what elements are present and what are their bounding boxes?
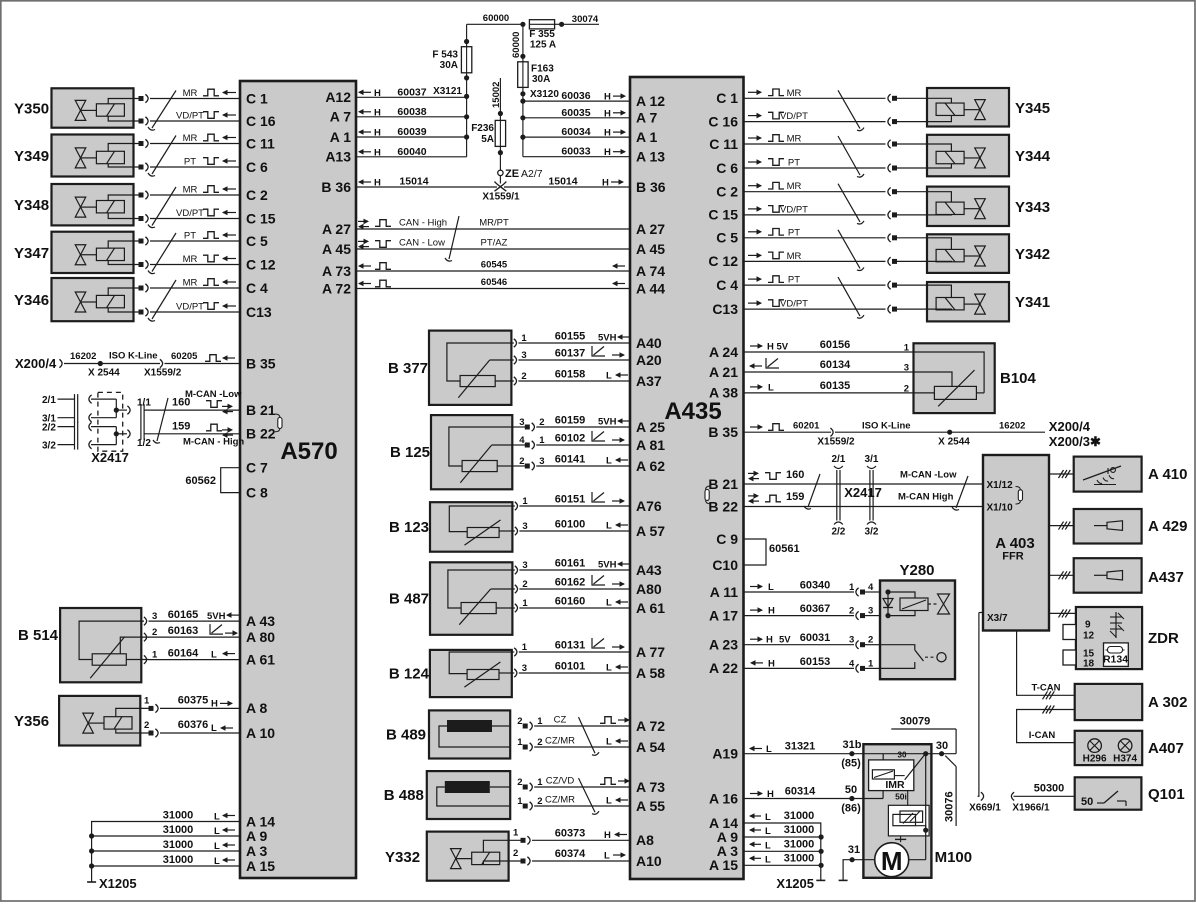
ZDR label xyxy=(1148,630,1179,647)
svg-text:Y332: Y332 xyxy=(385,849,420,866)
icon L CZ/MR xyxy=(606,737,628,748)
svg-text:3: 3 xyxy=(522,521,527,532)
svg-text:60135: 60135 xyxy=(820,380,851,392)
A435 pin A 8 xyxy=(636,832,654,848)
svg-text:31000: 31000 xyxy=(163,810,194,822)
A570 pin C 1 xyxy=(246,90,268,106)
svg-text:A12: A12 xyxy=(325,89,351,105)
svg-text:B 489: B 489 xyxy=(386,726,426,743)
svg-text:30A: 30A xyxy=(440,60,458,71)
B 487 pin 3 xyxy=(512,560,630,574)
wire label 15002 xyxy=(491,82,502,108)
sensor B514 box xyxy=(60,608,141,682)
A429 label xyxy=(1148,518,1187,535)
A570 pin C 6 xyxy=(246,159,268,175)
svg-text:A 17: A 17 xyxy=(709,607,738,623)
svg-text:A 12: A 12 xyxy=(636,93,665,109)
svg-text:30076: 30076 xyxy=(944,791,956,822)
A435 pin A 54 xyxy=(636,739,665,755)
svg-text:H: H xyxy=(374,88,381,99)
A570 pin B 36 xyxy=(321,179,351,195)
Y347 connector pin 1 xyxy=(139,237,241,245)
svg-text:A43: A43 xyxy=(636,562,662,578)
svg-text:2: 2 xyxy=(537,796,542,807)
A435 pin A 21 xyxy=(709,364,738,380)
heater B 489 box xyxy=(429,710,510,758)
svg-text:50: 50 xyxy=(845,784,857,796)
svg-text:R134: R134 xyxy=(1103,654,1128,666)
svg-text:60101: 60101 xyxy=(555,661,586,673)
A435 pin A43 xyxy=(636,562,662,578)
B 489 inner wires xyxy=(439,726,510,747)
solenoid valve block Y348 xyxy=(52,184,134,225)
svg-text:C 5: C 5 xyxy=(246,233,268,249)
svg-text:2: 2 xyxy=(144,720,149,731)
wire CZ/MR xyxy=(545,795,575,806)
A437 label xyxy=(1148,569,1184,586)
CAN pair slash xyxy=(445,216,459,261)
A437 injector icon xyxy=(1094,571,1123,581)
svg-text:4: 4 xyxy=(519,435,525,446)
icon ramp 60162 xyxy=(592,575,625,587)
X2417 merge upper xyxy=(91,399,127,418)
svg-text:5VH: 5VH xyxy=(598,333,617,344)
svg-text:B 377: B 377 xyxy=(388,360,428,377)
wire 31000 left 4 xyxy=(89,854,240,869)
svg-text:60159: 60159 xyxy=(555,415,586,427)
Y280 pin 2/3 xyxy=(744,606,881,620)
B514 pin 1 hook xyxy=(144,650,158,664)
A435 pin A 16 xyxy=(709,790,738,806)
svg-text:H374: H374 xyxy=(1113,754,1137,765)
wire 60160 xyxy=(555,596,586,608)
B 488 inner wires xyxy=(437,787,510,806)
Y332 symbol xyxy=(451,849,500,869)
svg-text:A570: A570 xyxy=(280,438,337,465)
icon H 60153 xyxy=(750,658,775,669)
B514 pin 3 hook xyxy=(144,611,157,625)
A435 CAN terminator symbol xyxy=(705,486,711,504)
icon L 60101 xyxy=(606,663,628,674)
module A407 box xyxy=(1075,731,1143,765)
A435 pin C 6 xyxy=(716,160,738,176)
wire label PT xyxy=(184,157,236,168)
svg-text:A 81: A 81 xyxy=(636,437,665,453)
solenoid valve block Y342 xyxy=(927,234,1009,273)
Y343 connector pin 2 xyxy=(744,211,928,219)
svg-text:2: 2 xyxy=(521,371,526,382)
A435 pin C13 xyxy=(712,301,738,317)
svg-text:L: L xyxy=(768,382,774,393)
wire X3/7 down xyxy=(978,613,979,797)
A403 terminator xyxy=(1016,487,1023,505)
hook 1/1 xyxy=(127,398,151,415)
label X200/4 xyxy=(1049,419,1091,434)
svg-text:H: H xyxy=(374,147,381,158)
X2417 plug bars lower xyxy=(75,422,78,450)
A435 pin A 9 right xyxy=(717,829,738,845)
svg-text:X200/3✱: X200/3✱ xyxy=(1049,434,1101,449)
svg-text:3: 3 xyxy=(519,417,524,428)
svg-text:A 54: A 54 xyxy=(636,739,665,755)
svg-text:30: 30 xyxy=(898,751,907,760)
svg-text:F 355: F 355 xyxy=(529,29,555,40)
svg-text:Y342: Y342 xyxy=(1015,246,1050,263)
Y350 connector pin 1 xyxy=(139,94,241,102)
wire 60036 xyxy=(523,90,630,102)
svg-text:60134: 60134 xyxy=(820,359,851,371)
60545 icons xyxy=(358,263,625,270)
X2417 stub 2/2 xyxy=(42,423,74,434)
wire A302-A407 link xyxy=(1017,706,1075,743)
wire 60037 xyxy=(356,86,467,98)
A435 pin C 1 xyxy=(716,90,738,106)
wire 60156 xyxy=(820,339,851,351)
wire 60546 xyxy=(356,277,630,289)
solenoid valve block Y347 xyxy=(52,232,134,273)
svg-text:PT/AZ: PT/AZ xyxy=(481,238,508,249)
icon L 60135 xyxy=(750,382,774,393)
wire 60040 xyxy=(356,146,467,158)
ZDR pins 15 18 xyxy=(1083,649,1095,670)
ground bus right xyxy=(744,823,826,880)
wire 60375 xyxy=(178,695,233,710)
svg-text:1: 1 xyxy=(521,333,527,344)
svg-text:B 21: B 21 xyxy=(708,476,738,492)
svg-text:A 24: A 24 xyxy=(709,344,738,360)
X2417 hook 3/1 xyxy=(89,414,92,422)
icon 5VH 60161 xyxy=(598,560,629,571)
wire arrow MR xyxy=(748,181,802,192)
valve Y332 box xyxy=(427,832,509,881)
svg-text:VD/PT: VD/PT xyxy=(176,302,204,313)
svg-text:C 11: C 11 xyxy=(246,135,275,151)
wire label MR xyxy=(183,254,236,265)
module A437 box xyxy=(1074,558,1142,593)
ECU A435 box xyxy=(630,77,744,879)
wire label MR xyxy=(183,88,236,99)
svg-text:A 9: A 9 xyxy=(246,828,267,844)
Q101 switch xyxy=(1081,791,1126,808)
B 489 element xyxy=(447,720,492,732)
svg-text:C 8: C 8 xyxy=(246,484,268,500)
svg-text:31000: 31000 xyxy=(784,852,815,864)
svg-text:A 61: A 61 xyxy=(636,600,665,616)
B 125 pin 1 xyxy=(512,435,630,449)
svg-text:C 7: C 7 xyxy=(246,460,268,476)
Y280 pin 4/1 xyxy=(744,658,881,672)
wire 60373 xyxy=(555,828,627,842)
svg-text:H: H xyxy=(374,178,381,189)
svg-text:MR: MR xyxy=(787,181,802,192)
svg-text:M-CAN - High: M-CAN - High xyxy=(183,437,244,448)
svg-text:IMR: IMR xyxy=(885,779,905,791)
svg-text:3: 3 xyxy=(868,606,873,617)
wire 30079 xyxy=(891,716,956,754)
motor symbol xyxy=(875,843,909,877)
wire 60039 xyxy=(356,126,469,140)
svg-text:A 16: A 16 xyxy=(709,790,738,806)
slash 160/159 right xyxy=(952,476,968,510)
svg-text:30074: 30074 xyxy=(572,14,599,25)
A570 pin A 7 xyxy=(330,109,351,125)
svg-text:125 A: 125 A xyxy=(530,40,556,51)
A435 pin A 55 xyxy=(636,798,665,814)
wire 60367 xyxy=(800,603,831,615)
svg-text:A 57: A 57 xyxy=(636,523,665,539)
vertical feed 60000 xyxy=(520,24,525,62)
A435 pin C 16 xyxy=(708,113,738,129)
svg-text:H: H xyxy=(604,128,611,139)
svg-text:PT: PT xyxy=(788,227,800,238)
A435 pin A 24 xyxy=(709,344,738,360)
Y344 connector pin 1 xyxy=(744,140,928,148)
icon L 60100 xyxy=(606,521,628,532)
A435 pin A 44 xyxy=(636,280,665,296)
wire 60163 xyxy=(149,625,241,637)
A435 pin A 1 xyxy=(636,129,657,145)
B 377 pin 2 xyxy=(511,371,630,385)
svg-text:60546: 60546 xyxy=(481,277,507,288)
svg-text:VD/PT: VD/PT xyxy=(780,204,808,215)
A435 pin A80 xyxy=(636,581,662,597)
B 125 pin 2 xyxy=(512,417,630,431)
svg-text:31000: 31000 xyxy=(784,838,815,850)
svg-text:3: 3 xyxy=(522,663,527,674)
wire CZ xyxy=(554,715,567,726)
svg-text:L: L xyxy=(606,598,612,609)
svg-text:60314: 60314 xyxy=(785,786,816,798)
svg-text:FFR: FFR xyxy=(1002,551,1023,563)
Y341 label xyxy=(1015,294,1050,311)
svg-text:1: 1 xyxy=(517,737,523,748)
svg-text:A 61: A 61 xyxy=(246,651,275,667)
svg-text:H: H xyxy=(767,789,774,800)
svg-text:60131: 60131 xyxy=(555,640,586,652)
Y349 pair slash xyxy=(148,136,176,177)
wire 31000 left 1 xyxy=(163,810,235,823)
svg-text:PT: PT xyxy=(788,275,800,286)
ZDR pins 9 12 xyxy=(1083,620,1095,642)
ECU A570 box xyxy=(240,81,356,878)
Y350 label xyxy=(14,101,49,118)
B 377 thermistor xyxy=(458,360,495,398)
module ZDR box xyxy=(1076,607,1142,669)
svg-text:C 15: C 15 xyxy=(246,210,276,226)
X2417 merge lower xyxy=(91,427,127,445)
wire 60034 xyxy=(520,126,630,140)
wire 31321 xyxy=(744,741,864,757)
svg-text:H: H xyxy=(374,128,381,139)
svg-text:1: 1 xyxy=(868,658,874,669)
svg-text:3/2: 3/2 xyxy=(42,441,56,452)
svg-text:15014: 15014 xyxy=(399,176,428,188)
svg-text:B 36: B 36 xyxy=(636,179,666,195)
hook X1966/1 xyxy=(1011,792,1050,813)
svg-text:16202: 16202 xyxy=(999,421,1025,432)
wire arrow MR xyxy=(748,251,802,262)
svg-text:A 7: A 7 xyxy=(636,110,657,126)
Y349 connector pin 2 xyxy=(139,163,241,171)
Y347 coil leads xyxy=(108,241,141,265)
svg-text:ISO K-Line: ISO K-Line xyxy=(862,421,911,432)
svg-text:A37: A37 xyxy=(636,373,662,389)
A435 pin A 58 xyxy=(636,665,665,681)
svg-text:2: 2 xyxy=(539,417,544,428)
svg-text:A 15: A 15 xyxy=(246,858,275,874)
svg-text:1: 1 xyxy=(849,582,855,593)
module A429 box xyxy=(1074,509,1142,544)
label M-CAN - High left xyxy=(183,437,244,448)
Y343 coil leads xyxy=(927,192,951,215)
wire label MR xyxy=(183,278,236,289)
svg-text:A 80: A 80 xyxy=(246,629,275,645)
A570 pin A 72 xyxy=(322,280,351,296)
A435 pin C 2 xyxy=(716,184,738,200)
svg-text:2/1: 2/1 xyxy=(42,395,56,406)
X2417 right bars 2 xyxy=(870,470,873,521)
wire label VD/PT xyxy=(176,111,236,122)
wire 60102 xyxy=(555,433,586,445)
Y280 valve xyxy=(928,594,950,614)
A407 label xyxy=(1148,740,1184,757)
B 125 pin 3 xyxy=(512,456,630,470)
svg-text:C 9: C 9 xyxy=(716,531,738,547)
icon ramp 60137 xyxy=(592,346,625,358)
X2417 right label xyxy=(844,485,882,500)
start relay ground xyxy=(895,836,906,842)
B 377 inner wires xyxy=(447,343,512,381)
A570 pin A12 xyxy=(325,89,351,105)
A570 pin A 45 xyxy=(322,241,351,257)
Y350 coil leads xyxy=(108,99,141,122)
svg-text:1: 1 xyxy=(522,496,528,507)
svg-text:X1/10: X1/10 xyxy=(987,503,1014,514)
start relay out xyxy=(916,826,929,833)
icon 5VH 60165 xyxy=(207,611,239,622)
ground X1205 right xyxy=(776,876,814,891)
svg-text:X3/7: X3/7 xyxy=(987,613,1008,624)
B 488 pin 1 xyxy=(517,777,630,791)
svg-text:5V: 5V xyxy=(779,635,791,646)
svg-text:M100: M100 xyxy=(935,849,973,866)
wire 60035 xyxy=(520,107,630,121)
solenoid valve block Y350 xyxy=(52,88,134,127)
svg-text:C 15: C 15 xyxy=(708,207,738,223)
svg-text:60036: 60036 xyxy=(561,90,590,102)
Y345 pair slash xyxy=(838,90,864,130)
A403 label xyxy=(995,535,1034,563)
Y356 pin 1 xyxy=(144,696,240,713)
svg-text:H 5V: H 5V xyxy=(767,342,789,353)
svg-text:L: L xyxy=(214,856,220,867)
B 487 thermistor xyxy=(459,589,496,625)
wire 60137 xyxy=(555,348,586,360)
X2417 label xyxy=(91,450,129,465)
A429 injector icon xyxy=(1094,521,1123,531)
svg-text:9: 9 xyxy=(1085,620,1091,631)
svg-text:VD/PT: VD/PT xyxy=(780,111,808,122)
A435 pin A 74 xyxy=(636,263,665,279)
start relay box xyxy=(888,805,929,836)
A435 pin A 27 xyxy=(636,221,665,237)
svg-text:H: H xyxy=(766,635,773,646)
svg-text:L: L xyxy=(766,744,772,755)
A435 pin A40 xyxy=(636,335,662,351)
A435 pin A 77 xyxy=(636,644,665,660)
label M-CAN -Low left xyxy=(185,389,242,400)
svg-text:5VH: 5VH xyxy=(207,611,226,622)
svg-text:L: L xyxy=(606,456,612,467)
wire label 60000 xyxy=(483,13,509,24)
wire 31 ground xyxy=(839,844,875,880)
svg-text:VD/PT: VD/PT xyxy=(176,208,204,219)
svg-text:60340: 60340 xyxy=(800,580,831,592)
svg-text:H: H xyxy=(604,147,611,158)
A429 stub xyxy=(1049,522,1074,530)
svg-text:60155: 60155 xyxy=(555,331,586,343)
svg-text:F163: F163 xyxy=(531,64,554,75)
B 488 slash xyxy=(579,778,600,814)
svg-text:X3120: X3120 xyxy=(530,89,559,100)
svg-text:60000: 60000 xyxy=(511,32,522,58)
svg-text:31000: 31000 xyxy=(163,839,194,851)
B 488 label xyxy=(384,787,424,804)
Y342 coil leads xyxy=(927,238,951,262)
svg-text:2: 2 xyxy=(513,848,518,859)
svg-text:C 11: C 11 xyxy=(709,136,738,152)
wire 60205 xyxy=(165,351,241,364)
A570 pin A 9 xyxy=(246,828,267,844)
Y343 label xyxy=(1015,199,1050,216)
svg-text:31b: 31b xyxy=(843,739,862,751)
ZDR stub xyxy=(1049,609,1076,617)
svg-text:2/2: 2/2 xyxy=(831,527,845,538)
arrow 60036 H xyxy=(604,92,626,103)
svg-text:30: 30 xyxy=(936,740,948,752)
svg-text:L: L xyxy=(606,796,612,807)
svg-text:A407: A407 xyxy=(1148,740,1184,757)
B 377 pin 3 xyxy=(511,350,630,364)
svg-text:VD/PT: VD/PT xyxy=(176,111,204,122)
60546 icons xyxy=(358,280,625,287)
svg-text:60545: 60545 xyxy=(481,260,508,271)
Y346 coil leads xyxy=(108,288,141,312)
Y345 connector pin 2 xyxy=(744,117,928,125)
X2417 right hooks xyxy=(834,466,876,525)
A435 pin A 13 xyxy=(636,149,665,165)
icon ramp 60163 xyxy=(210,624,238,636)
label X3121 xyxy=(433,86,469,99)
A570 pin C 11 xyxy=(246,135,275,151)
svg-text:1: 1 xyxy=(517,796,523,807)
svg-text:60201: 60201 xyxy=(793,421,820,432)
wire 31000 right 2 xyxy=(744,824,824,840)
svg-text:C13: C13 xyxy=(712,301,738,317)
svg-text:3: 3 xyxy=(522,560,527,571)
svg-text:60374: 60374 xyxy=(555,848,586,860)
wire 31000 right 1 xyxy=(749,810,814,823)
wire 15014 left xyxy=(356,176,497,188)
wire 60201 ISO xyxy=(744,421,832,433)
wire ISO right xyxy=(835,421,1045,448)
Y347 connector pin 2 xyxy=(139,260,241,268)
svg-text:3: 3 xyxy=(152,611,157,622)
svg-text:A 410: A 410 xyxy=(1148,466,1187,483)
icon 5VH 60159 xyxy=(598,417,629,428)
A435 pin A 72 xyxy=(636,718,665,734)
loop 60562 xyxy=(221,468,240,493)
